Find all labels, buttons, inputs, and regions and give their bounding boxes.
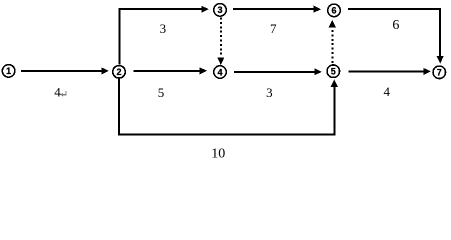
svg-text:4: 4: [54, 85, 61, 100]
wire elbow 6-7: [348, 9, 444, 63]
wire arrow 5-7: [349, 68, 431, 75]
svg-text:5: 5: [158, 85, 165, 100]
svg-text:3: 3: [160, 21, 167, 36]
svg-text:3: 3: [266, 85, 273, 100]
dashed dummy arrow 5-6: [329, 20, 336, 63]
svg-text:1: 1: [6, 66, 11, 76]
node 7: [433, 66, 446, 79]
wire elbow 2-5 bottom: [119, 78, 338, 135]
svg-text:10: 10: [211, 146, 225, 161]
svg-text:5: 5: [331, 67, 336, 77]
wire arrow 2-4: [134, 67, 208, 74]
wire arrow 3-6: [233, 6, 321, 13]
dashed dummy arrow 3-4: [217, 18, 224, 65]
svg-text:6: 6: [392, 18, 399, 33]
node 2: [113, 66, 126, 79]
svg-text:3: 3: [217, 5, 222, 15]
node 6: [328, 4, 341, 17]
svg-text:4: 4: [217, 67, 222, 77]
svg-text:7: 7: [270, 21, 277, 36]
svg-text:7: 7: [437, 68, 442, 78]
wire arrow 4-5: [234, 68, 322, 75]
wire elbow 2-3: [120, 6, 209, 65]
node 3: [214, 4, 227, 17]
svg-text:6: 6: [331, 6, 336, 16]
node 4: [214, 66, 227, 79]
svg-text:4: 4: [383, 84, 390, 99]
wire arrow 1-2: [21, 67, 109, 74]
node 5: [327, 65, 340, 78]
node 1: [2, 65, 15, 78]
label 4 with pilcrow (duration of 1-2): [54, 85, 66, 100]
svg-text:2: 2: [116, 67, 121, 77]
